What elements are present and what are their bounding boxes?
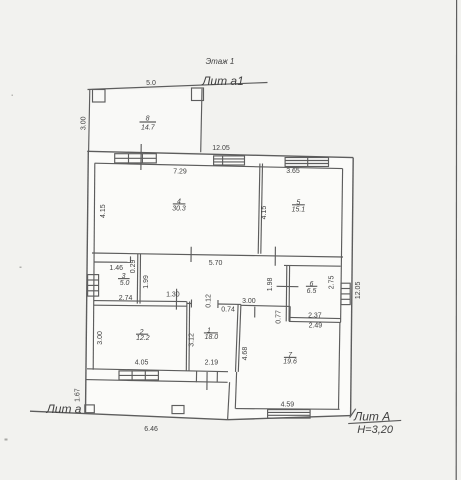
room2 window divider a — [131, 371, 133, 380]
label 1 fraction line — [204, 332, 218, 334]
svg-text:5.0: 5.0 — [146, 80, 156, 87]
porch pillar left — [85, 405, 95, 413]
room2 right wall line a — [185, 302, 188, 371]
right wall window frame — [341, 283, 350, 304]
svg-text:3: 3 — [122, 273, 126, 280]
svg-text:18.0: 18.0 — [205, 334, 219, 341]
svg-text:3.00: 3.00 — [97, 331, 104, 345]
room1/room7 divider line a — [238, 304, 241, 372]
label 6 fraction line — [306, 285, 317, 287]
room7 bottom inner — [236, 408, 340, 411]
svg-text:8: 8 — [146, 116, 150, 123]
room1/room7 divider line b — [236, 304, 239, 372]
corridor top line — [92, 253, 343, 257]
label 3 fraction line — [118, 278, 130, 280]
room6 door leader — [277, 285, 299, 287]
dim tick 3.00 — [254, 307, 256, 318]
window W2 divider — [222, 156, 224, 165]
room4/room5 divider line b — [261, 164, 263, 254]
room1 top wall left stub — [187, 302, 192, 304]
window W3 divider — [307, 158, 309, 167]
window W2 inner h a — [214, 158, 245, 160]
room6 bottom wall line b — [289, 321, 341, 322]
svg-text:4.05: 4.05 — [135, 360, 149, 367]
room2 right wall line b — [188, 302, 191, 371]
label 2 fraction line — [136, 333, 148, 335]
annex pillar left — [93, 90, 106, 103]
rooms 1-2 bottom wall inner — [87, 369, 228, 372]
room6 left wall line a — [285, 266, 288, 322]
svg-text:6.5: 6.5 — [307, 288, 317, 295]
room6 left wall line b — [288, 266, 291, 322]
label 7 fraction line — [284, 356, 297, 358]
bottom wall tick b — [216, 371, 218, 382]
svg-text:2.74: 2.74 — [119, 295, 133, 302]
svg-text:5: 5 — [296, 199, 300, 206]
svg-text:0.29: 0.29 — [130, 259, 137, 273]
0.29 step — [130, 256, 132, 262]
room7 window h b — [268, 414, 311, 416]
right window h a — [341, 288, 350, 290]
svg-text:4.15: 4.15 — [100, 204, 107, 218]
porch pillar mid — [172, 406, 184, 414]
margin speck c — [5, 439, 8, 441]
window W1 divider a — [128, 154, 130, 163]
svg-text:3.65: 3.65 — [286, 168, 300, 175]
room7 top wall left part — [241, 305, 290, 306]
left window h b — [88, 284, 99, 286]
window W3 frame — [285, 158, 328, 167]
annex right wall — [201, 89, 202, 153]
room1 top wall right part — [218, 303, 241, 305]
margin speck b — [20, 267, 22, 269]
annex interior fill — [89, 89, 202, 152]
right wall outer — [351, 158, 354, 416]
room3/room2 wall line a — [94, 301, 187, 302]
svg-text:5.0: 5.0 — [120, 280, 130, 287]
svg-text:Н=3,20: Н=3,20 — [357, 424, 394, 436]
room3 right wall line a — [136, 254, 139, 304]
svg-text:7.29: 7.29 — [173, 169, 187, 176]
room7 bottom window frame — [268, 410, 311, 419]
left window h a — [88, 279, 99, 281]
label 4 fraction line — [173, 203, 186, 205]
right window h c — [341, 298, 350, 300]
margin speck a — [12, 95, 14, 97]
corner slash tick — [350, 409, 356, 418]
porch door line — [206, 372, 208, 390]
svg-text:0.77: 0.77 — [275, 310, 282, 324]
svg-text:12.05: 12.05 — [212, 145, 230, 152]
main top wall outer — [87, 151, 353, 157]
bottom wall tick a — [195, 371, 197, 382]
room2 window divider b — [144, 371, 146, 380]
room1 door jamb left — [190, 300, 192, 308]
svg-text:3.00: 3.00 — [80, 116, 87, 130]
svg-text:1.99: 1.99 — [143, 275, 150, 289]
svg-text:0.12: 0.12 — [206, 294, 213, 308]
svg-text:6.46: 6.46 — [144, 426, 158, 433]
porch right edge — [228, 382, 230, 420]
0.77 step wall — [289, 306, 291, 321]
svg-text:1.67: 1.67 — [75, 388, 82, 402]
scanned page edge line — [455, 0, 457, 480]
svg-text:Этаж 1: Этаж 1 — [206, 57, 235, 66]
axis line through W1 — [140, 144, 142, 170]
room7 window h a — [268, 411, 311, 413]
room2 bottom window frame — [119, 371, 158, 380]
window W3 inner h a — [285, 160, 328, 162]
rooms 1-2 bottom wall outer — [86, 380, 228, 383]
room6 bottom wall line a — [289, 317, 341, 318]
svg-text:5.70: 5.70 — [209, 260, 223, 267]
room3 top wall — [94, 261, 131, 263]
wall stub at 1.30 — [175, 289, 177, 310]
svg-text:1.98: 1.98 — [267, 277, 274, 291]
svg-text:2.49: 2.49 — [309, 323, 323, 330]
svg-text:12.05: 12.05 — [355, 282, 362, 300]
right window h b — [341, 293, 350, 295]
label 8 fraction line — [140, 121, 157, 123]
svg-text:4.15: 4.15 — [261, 206, 268, 220]
svg-text:19.6: 19.6 — [283, 359, 297, 366]
window W1 frame — [115, 154, 157, 163]
annex top line extended (Лит а1 leader) — [88, 83, 268, 90]
right wall inner — [341, 169, 343, 323]
left wall outer — [86, 151, 89, 412]
window W2 inner h b — [214, 161, 245, 163]
svg-text:Лит а1: Лит а1 — [201, 74, 244, 88]
room7 left wall lower — [235, 372, 236, 409]
room4 door jamb — [190, 247, 192, 262]
annex pillar right — [192, 88, 204, 101]
svg-text:15.1: 15.1 — [292, 207, 306, 214]
svg-text:0.74: 0.74 — [221, 307, 235, 314]
svg-text:2.37: 2.37 — [308, 313, 322, 320]
room3 right wall line b — [139, 254, 142, 304]
room7 right wall inner — [339, 322, 340, 409]
annex left wall — [89, 90, 90, 152]
window W3 inner h b — [285, 163, 328, 165]
svg-text:1.46: 1.46 — [109, 265, 123, 272]
room1 door jamb right — [217, 300, 219, 308]
building interior fill — [86, 151, 354, 419]
svg-text:Лит А: Лит А — [353, 409, 390, 423]
Лит А underline — [348, 420, 401, 423]
svg-text:14.7: 14.7 — [141, 124, 156, 131]
room5 door jamb — [274, 247, 276, 266]
svg-text:12.2: 12.2 — [136, 335, 150, 342]
svg-text:4.68: 4.68 — [242, 347, 249, 361]
bottom wall outer right part — [228, 416, 351, 420]
left window h c — [88, 290, 99, 292]
left wall inner — [93, 163, 95, 370]
svg-text:4.59: 4.59 — [281, 402, 295, 409]
porch bottom ground line — [30, 411, 228, 420]
label 5 fraction line — [292, 204, 305, 206]
main top wall inner — [95, 163, 343, 168]
window W1 divider b — [141, 154, 143, 163]
window W2 frame — [214, 156, 245, 165]
svg-text:Лит а: Лит а — [46, 402, 82, 416]
svg-text:1.30: 1.30 — [166, 292, 180, 299]
room2 window mid h — [119, 374, 158, 376]
room4/room5 divider line a — [258, 164, 260, 254]
svg-text:6: 6 — [309, 281, 313, 288]
svg-text:2.75: 2.75 — [328, 275, 335, 289]
svg-text:3.00: 3.00 — [242, 298, 256, 305]
svg-text:3.12: 3.12 — [188, 333, 195, 347]
room6 top wall — [284, 264, 341, 267]
window W1 mid horizontal — [115, 157, 157, 159]
room3/room2 wall line b — [94, 305, 187, 306]
left wall window frame — [88, 275, 99, 297]
svg-text:30.3: 30.3 — [172, 205, 186, 212]
svg-text:2.19: 2.19 — [205, 360, 219, 367]
